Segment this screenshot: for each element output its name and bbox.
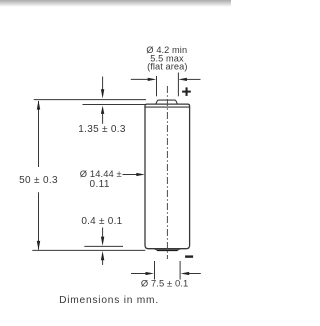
battery bottom contact bump outline (154, 249, 180, 251)
battery body outline (145, 104, 190, 249)
battery positive button terminal (156, 100, 177, 104)
dim 0.4 lower arrowhead (101, 251, 104, 260)
dim 50 lower line (38, 192, 40, 249)
plus symbol (182, 91, 191, 93)
dim 0.4 upper arrow stem (102, 228, 104, 238)
dim 14.44 arrowhead (136, 173, 145, 176)
dim 50 lower arrowhead (37, 241, 40, 250)
extension line at button top level (34, 99, 146, 101)
page top shading (0, 0, 231, 7)
dim 50 upper line (38, 101, 40, 167)
dim 0.4 upper arrowhead (101, 237, 104, 246)
dim 7.5 line right (189, 273, 201, 275)
extension line at contact recess level (84, 245, 123, 247)
battery top rim line (145, 106, 190, 108)
dim 14.44 arrow line (123, 174, 138, 176)
dim 0.4 lower arrow stem (102, 259, 104, 265)
top extension line right (177, 73, 179, 97)
centerline (166, 86, 168, 259)
svg-text:50 ± 0.3: 50 ± 0.3 (19, 175, 58, 186)
dim 1.35 upper arrow stem (102, 77, 104, 90)
svg-text:Ø 7.5 ± 0.1: Ø 7.5 ± 0.1 (141, 277, 188, 288)
dim 1.35 upper arrowhead (101, 89, 104, 98)
dim 7.5 left arrowhead (146, 272, 154, 275)
svg-text:Dimensions in mm.: Dimensions in mm. (59, 295, 159, 306)
svg-text:0.4 ± 0.1: 0.4 ± 0.1 (81, 216, 122, 227)
svg-text:Ø 14.44 ±: Ø 14.44 ± (80, 168, 122, 179)
top dimension line left (131, 78, 149, 80)
battery bottom contact flat (thick) (157, 249, 178, 251)
dim 7.5 line left (131, 273, 147, 275)
dim 1.35 lower arrow stem (102, 113, 104, 124)
top dimension line right (187, 78, 201, 80)
top dimension right arrowhead (178, 78, 187, 81)
top dimension left arrowhead (148, 78, 157, 81)
dim 1.35 lower arrowhead (101, 106, 104, 114)
dim 50 upper arrowhead (37, 100, 40, 109)
dim 7.5 extension line left (154, 261, 156, 280)
minus symbol (185, 255, 193, 257)
svg-text:0.11: 0.11 (90, 179, 110, 190)
dim 7.5 extension line right (179, 261, 181, 280)
extension line at body shoulder level (83, 104, 146, 106)
extension line at bottom level (32, 249, 145, 251)
top extension line left (156, 76, 158, 96)
svg-text:(flat area): (flat area) (147, 62, 187, 72)
dim 7.5 right arrowhead (181, 272, 190, 275)
svg-text:1.35 ± 0.3: 1.35 ± 0.3 (78, 124, 126, 135)
